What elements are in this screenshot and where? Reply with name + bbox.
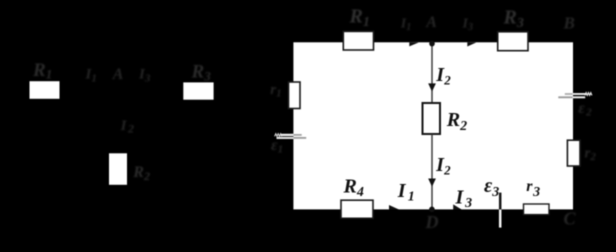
svg-text:C: C (564, 209, 577, 229)
resistor R3 (498, 32, 528, 51)
ghost label C (bottom-right corner) (564, 209, 577, 229)
left ghost label R2 (132, 164, 150, 183)
arrow I2 upper on middle branch (428, 83, 436, 91)
battery ε1 long plate (275, 134, 302, 137)
ghost label r2 (585, 145, 597, 163)
battery ε3 plate (499, 193, 502, 228)
label I2 (upper) (435, 64, 451, 87)
left ghost label R3 (191, 61, 212, 83)
circuit loop interior (wires A-B-C-D outline of right circuit) (293, 42, 573, 209)
ghost label A (node A) (425, 14, 437, 31)
battery ε2 long plate (565, 93, 592, 96)
node D (429, 207, 435, 213)
label r3 (526, 178, 540, 200)
label I1 (bottom) (397, 180, 415, 204)
label ε3 (484, 175, 499, 200)
ghost label D (node D, below bottom wire) (425, 212, 439, 232)
battery ε1 short plate (277, 137, 307, 139)
resistor R2 (423, 103, 441, 134)
ghost label I1 (top wire) (400, 16, 411, 33)
wire node A to R2 (431, 42, 433, 104)
ghost label B (top-right corner) (563, 14, 575, 33)
left ghost label I1 (85, 67, 97, 85)
left ghost label I2 (120, 118, 134, 136)
node A (429, 41, 435, 47)
svg-text:B: B (563, 14, 575, 33)
ghost label r1 (270, 82, 281, 100)
arrow I2 lower on middle branch (428, 179, 436, 187)
left ghost circuit: resistor R2 box (109, 153, 127, 185)
ghost label R1 (right circuit, above top wire) (349, 6, 370, 31)
label I3 (bottom) (455, 187, 473, 211)
resistor r3 (524, 204, 550, 215)
arrow I3 on bottom wire (453, 204, 461, 209)
left ghost label R1 (32, 60, 52, 82)
left ghost label A (112, 66, 124, 83)
label R4 (343, 176, 364, 201)
ghost label R3 (right circuit, above top wire) (503, 7, 524, 32)
wire R2 to node D (431, 134, 433, 210)
left ghost circuit: resistor R3 box (183, 82, 213, 99)
ghost label ε2 (578, 100, 592, 119)
arrow I1 on bottom wire (389, 205, 399, 210)
ghost label ε1 (271, 137, 283, 156)
left ghost label I3 (138, 67, 151, 85)
label R2 (446, 109, 467, 134)
label I2 (lower) (435, 154, 451, 177)
svg-text:D: D (425, 212, 439, 232)
left ghost circuit: resistor R1 box (30, 81, 60, 99)
svg-text:A: A (425, 14, 437, 31)
resistor R4 (341, 200, 373, 218)
resistor R1 (343, 31, 373, 50)
resistor r2 (567, 140, 580, 166)
battery ε2 short plate (558, 96, 585, 98)
resistor r1 (289, 82, 301, 109)
svg-text:A: A (112, 66, 124, 83)
arrow I3 on top wire (467, 42, 476, 46)
arrow I1 on top wire (409, 42, 418, 46)
ghost label I3 (top wire) (462, 16, 473, 33)
